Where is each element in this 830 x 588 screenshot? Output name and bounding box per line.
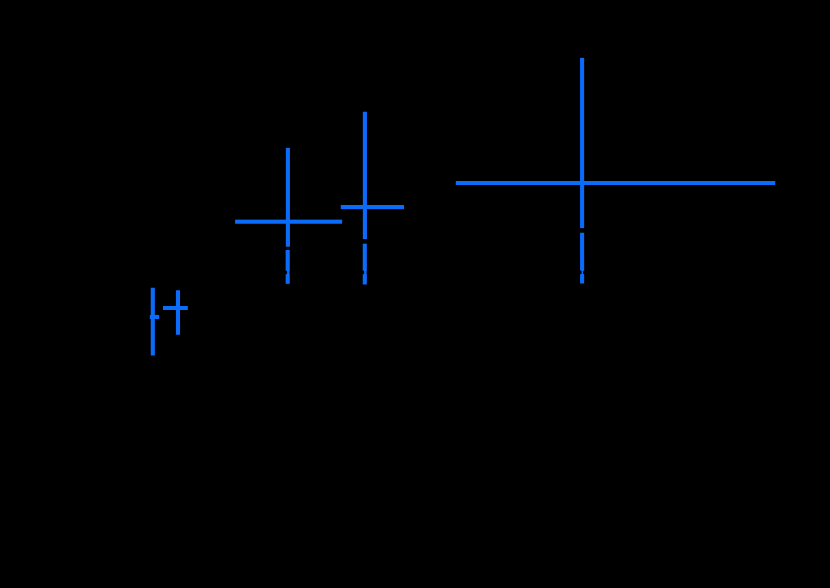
- error-bar cross P4 vertical lower: [363, 244, 367, 285]
- error-bar cross P5 vertical lower: [580, 233, 584, 284]
- notch bite over P5 vertical (left side): [579, 270, 582, 274]
- error-bar cross P3 horizontal: [235, 220, 342, 224]
- error-bar cross P5 vertical upper: [580, 58, 584, 228]
- error-bar cross P5 horizontal: [456, 181, 775, 185]
- error-bar cross P3 vertical lower: [286, 250, 290, 284]
- error-bar cross P1 vertical: [151, 288, 155, 356]
- error-bar cross P2 vertical: [176, 290, 180, 335]
- error-bar cross P3 vertical upper: [286, 148, 290, 247]
- error-bar cross P2 horizontal: [163, 306, 188, 310]
- error-bar cross P4 horizontal: [341, 205, 404, 209]
- error-bar cross P4 vertical upper: [363, 112, 367, 239]
- notch bite over P4 vertical (left side): [362, 270, 365, 274]
- error-bar cross P1 horizontal: [150, 315, 159, 319]
- faint shade on P4 vertical right edge: [366, 271, 367, 274]
- notch bite over P3 vertical (left side): [285, 270, 288, 274]
- notch bite over P5 vertical (right side): [583, 271, 585, 275]
- faint shade on P3 vertical right edge: [289, 271, 290, 274]
